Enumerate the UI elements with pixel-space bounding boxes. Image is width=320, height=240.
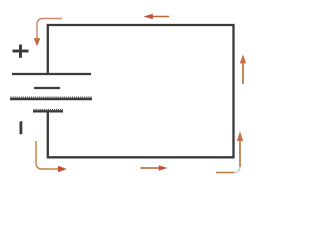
label: plus terminal — [13, 45, 29, 58]
current arrow: bottom-left elbow, pointing right — [36, 141, 67, 172]
battery B1: plate 3 (long, serrated) — [10, 97, 92, 99]
current arrow: top, pointing left — [144, 14, 170, 20]
current arrow: bottom-right elbow, pointing up — [216, 131, 243, 172]
battery B1: plate 1 (long, positive) — [12, 73, 91, 75]
battery B1: plate 4 (short, serrated, negative) — [33, 109, 63, 111]
current arrow: right side, pointing up — [240, 55, 247, 85]
label: minus terminal — [20, 121, 23, 134]
battery B1: plate 2 (short) — [34, 87, 60, 89]
current arrow: top-left elbow, pointing down — [34, 19, 62, 47]
current arrow: bottom, pointing right — [141, 165, 168, 171]
wire loop (top, right, bottom sides and left stubs to battery) — [48, 25, 234, 157]
